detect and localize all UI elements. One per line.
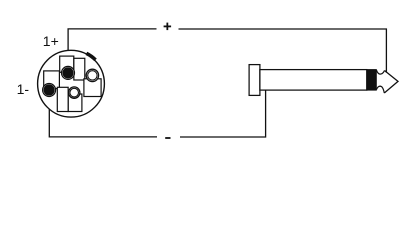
jack collar [249, 65, 260, 96]
contact 2- unused inner [70, 88, 79, 97]
slot center upper [74, 58, 85, 80]
contact 1+ solder cup [62, 66, 75, 79]
svg-text:1-: 1- [17, 81, 30, 97]
slot 1+ [60, 56, 74, 72]
wire top + : left segment from speakON 1+ up and right [68, 29, 156, 56]
wire bottom - : right segment up to jack sleeve [180, 90, 266, 137]
slot 2+ [84, 79, 101, 97]
node - label on bottom wire [165, 137, 170, 139]
slot center lower [57, 87, 68, 111]
connector shell circle [38, 50, 105, 117]
slot 2- [68, 94, 82, 112]
jack tip [384, 71, 398, 94]
wire bottom - : left segment from speakON 1- down and right [49, 97, 157, 137]
jack insulator band [367, 70, 377, 91]
contact 2- unused outer [69, 87, 80, 98]
node + label on top wire [164, 23, 172, 31]
wire top + : right segment to jack tip [179, 29, 387, 73]
jack neck groove bottom [376, 86, 384, 93]
contact 2+ unused inner [88, 71, 97, 80]
contact 1- filled [44, 84, 55, 95]
keyway notch [86, 53, 95, 60]
svg-text:1+: 1+ [43, 33, 59, 49]
jack plug 6.3mm mono [249, 65, 398, 96]
contact 1+ filled [62, 67, 73, 78]
jack neck groove top [376, 70, 384, 74]
speakON connector body (rear view) [38, 50, 105, 117]
slot 1- [44, 71, 60, 89]
contact 1- solder cup [43, 84, 56, 97]
contact 2+ unused outer [86, 69, 98, 81]
jack sleeve barrel [260, 70, 367, 91]
